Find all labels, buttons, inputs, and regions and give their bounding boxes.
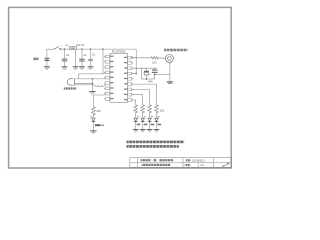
LED D1 (90, 114, 95, 131)
node rail-C1 (64, 48, 65, 49)
wire vdd drop (135, 49, 137, 75)
ground D2 (133, 130, 139, 133)
node rail-C3 (90, 48, 91, 49)
resistor R2 (141, 104, 145, 113)
ground C2 (79, 67, 85, 70)
battery BT1 label (33, 58, 38, 61)
capacitor C1 (62, 49, 67, 67)
wire LED3 net (132, 89, 149, 104)
note line 1 (127, 141, 185, 144)
wire resonator mid (74, 82, 92, 84)
label piezo speaker (164, 49, 188, 52)
IC U1 pins (104, 55, 133, 101)
LED D4 (148, 112, 153, 129)
resistor R5 220 (151, 57, 158, 60)
svg-text:NJF 5V: NJF 5V (76, 44, 84, 47)
scale arrow (223, 163, 229, 166)
wire OSC top (74, 78, 105, 80)
title row1 text (141, 159, 151, 161)
svg-text:2024/05/12: 2024/05/12 (192, 158, 206, 162)
wire cap net lower (132, 73, 136, 75)
resistor R3 (148, 104, 152, 113)
wire D1 net (93, 95, 105, 106)
ground D1 (90, 131, 96, 134)
capacitor C4 electrolytic (144, 68, 149, 79)
wire MCLR left branch (79, 74, 103, 79)
wire capB to speaker (155, 74, 170, 76)
switch SW1 (54, 46, 61, 50)
wire MCLR pullup (103, 49, 105, 74)
resistor R1 (134, 104, 138, 113)
title block (130, 158, 232, 168)
wire LED2 net (132, 95, 143, 105)
ground D3 (140, 130, 146, 133)
wire rail right (77, 48, 137, 50)
wire speaker net (132, 57, 151, 59)
wire regulator gnd (75, 50, 77, 67)
LED D5 (155, 112, 160, 129)
date label (186, 159, 191, 161)
LED D2 (134, 112, 139, 129)
node rail-MCLR (102, 48, 103, 49)
node rail-C2 (81, 48, 82, 49)
node mid-gnd (92, 83, 93, 84)
label D2 (137, 124, 141, 126)
label resonator (64, 87, 76, 89)
wire battery bottom (46, 61, 48, 67)
label D5 (158, 124, 162, 126)
node speaker pin (132, 57, 133, 58)
resistor R4 (155, 104, 159, 113)
capacitor C3 0.1 (88, 49, 92, 67)
speaker SP1 (165, 54, 173, 62)
ground D4 (147, 130, 153, 133)
capacitor C5 (152, 68, 158, 79)
IC U1 body (110, 53, 128, 102)
resonator X1 (67, 78, 74, 85)
ground D5 (154, 130, 160, 133)
node capA bus (146, 78, 147, 79)
svg-text:1/1: 1/1 (200, 163, 204, 167)
ground C1 (62, 67, 68, 70)
scale label (185, 164, 190, 166)
svg-text:464: 464 (148, 79, 153, 83)
svg-text:220: 220 (96, 109, 101, 113)
wire rail left (61, 48, 70, 50)
wire OSC bottom with hops (74, 85, 105, 87)
node capB speaker net (154, 74, 155, 75)
ground speaker (167, 82, 173, 84)
wire cap bottom bus (141, 78, 154, 80)
wire cap net upper (132, 67, 157, 69)
label D1 (95, 124, 101, 126)
svg-text:220: 220 (152, 60, 157, 64)
wire speaker down (169, 62, 171, 81)
ground C3 (88, 67, 94, 70)
ground battery (44, 67, 50, 70)
border frame (9, 7, 232, 168)
svg-text:PIC16F628A: PIC16F628A (112, 50, 126, 53)
title row2 text (142, 164, 171, 166)
label D4 (151, 124, 155, 126)
node vdd-pin (136, 73, 137, 74)
wire LED1 net (132, 100, 136, 104)
wire capA drop (140, 68, 142, 79)
battery BT1 (44, 58, 49, 60)
wire LED4 net (132, 84, 156, 104)
ground regulator (73, 67, 79, 70)
wire resistor to speaker (158, 57, 165, 60)
wire gnd drop (91, 79, 93, 92)
wire battery top (47, 49, 54, 58)
note line 2 (127, 145, 179, 148)
capacitor C2 (79, 49, 84, 67)
svg-text:220: 220 (160, 109, 165, 113)
node osc-gnd (92, 78, 93, 79)
LED D3 (141, 112, 146, 129)
regulator U2 78L05 (70, 46, 77, 49)
ground resonator (89, 92, 95, 95)
label D3 (144, 124, 148, 126)
svg-text:0.1: 0.1 (92, 52, 96, 56)
resistor R6 (92, 106, 96, 115)
